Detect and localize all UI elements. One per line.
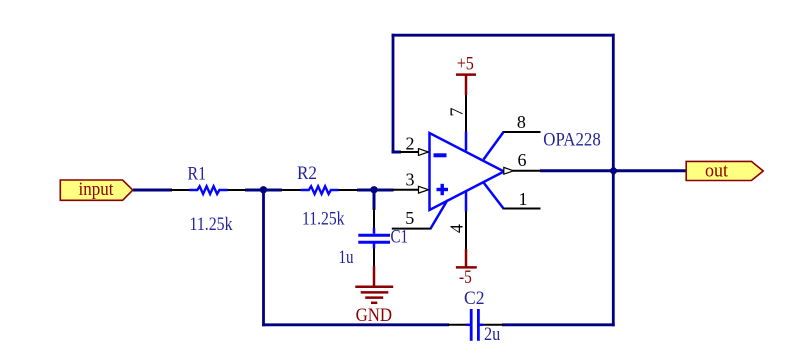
C1 lead upper [373,209,375,229]
port flag out [686,161,763,180]
pin 4 lead [465,210,467,251]
pin lead R1 left [170,189,191,191]
wire node A down vertical [262,190,265,326]
pin 6 lead [513,170,542,172]
power -5 symbol [456,249,477,267]
svg-text:GND: GND [356,306,393,326]
op-amp U1 triangle [430,133,505,210]
svg-text:11.25k: 11.25k [190,215,234,235]
svg-text:R1: R1 [188,165,207,185]
resistor R1 [189,186,227,194]
pin lead R1 right [226,189,246,191]
node B junction dot [370,186,377,193]
svg-text:5: 5 [405,208,414,228]
svg-text:1: 1 [519,189,528,209]
pin 6 output arrow [504,167,514,174]
pin 8 lead [503,131,541,133]
wire R1 to node A [245,189,282,192]
wire input to R1 [133,189,172,192]
capacitor C1 [358,228,390,249]
resistor R2 [301,186,339,194]
svg-text:C2: C2 [464,289,485,309]
svg-text:11.25k: 11.25k [302,209,345,229]
svg-text:+5: +5 [457,55,474,75]
svg-text:1u: 1u [339,248,354,268]
svg-text:OPA228: OPA228 [543,131,601,151]
svg-text:4: 4 [446,224,466,233]
svg-text:out: out [705,161,729,182]
svg-text:2: 2 [406,134,415,154]
port flag input [60,180,133,200]
capacitor C2 [467,309,484,341]
svg-text:input: input [79,179,115,200]
C1 lead lower [373,248,375,269]
wire pin6 to node C [540,169,614,172]
pin 8 diagonal stub [484,132,504,160]
C2 lead left [448,324,468,326]
pin 3 input arrow [419,186,429,193]
pin 1 diagonal stub [484,183,504,209]
svg-text:6: 6 [518,150,527,170]
pin 7 blue stub [465,132,468,151]
pin 5 lead [392,228,432,230]
node A junction dot [260,186,267,193]
svg-text:-5: -5 [459,268,472,288]
svg-text:2u: 2u [484,325,500,345]
op-amp minus symbol [434,153,447,157]
pin 2 lead [400,151,419,153]
wire C2 to right vertical [502,323,615,326]
svg-text:8: 8 [517,112,526,132]
pin 5 diagonal stub [431,200,448,229]
C2 lead right [482,324,504,326]
node C junction dot [609,166,619,176]
wire node C to out flag [614,169,687,172]
wire R2 to node B [357,189,394,192]
svg-text:3: 3 [406,170,415,190]
wire top feedback horizontal [392,34,615,37]
ground symbol [355,266,393,303]
pin 2 input arrow [419,149,429,156]
svg-text:7: 7 [446,108,466,117]
pin 7 lead [465,93,467,133]
pin lead R2 left [281,189,302,191]
wire node B to C1 [373,190,376,210]
svg-text:C1: C1 [391,228,409,248]
op-amp plus symbol [437,184,449,195]
power +5 symbol [456,75,476,95]
pin 1 lead [503,208,541,210]
pin lead R2 right [337,189,358,191]
wire top feedback left vertical [392,34,395,152]
wire bottom left to C2 [262,323,449,326]
pin 4 blue stub [465,191,468,212]
pin 3 lead [392,189,419,191]
svg-text:R2: R2 [297,164,317,184]
wire pin2 stub [392,151,402,154]
wire feedback right vertical [612,34,615,326]
